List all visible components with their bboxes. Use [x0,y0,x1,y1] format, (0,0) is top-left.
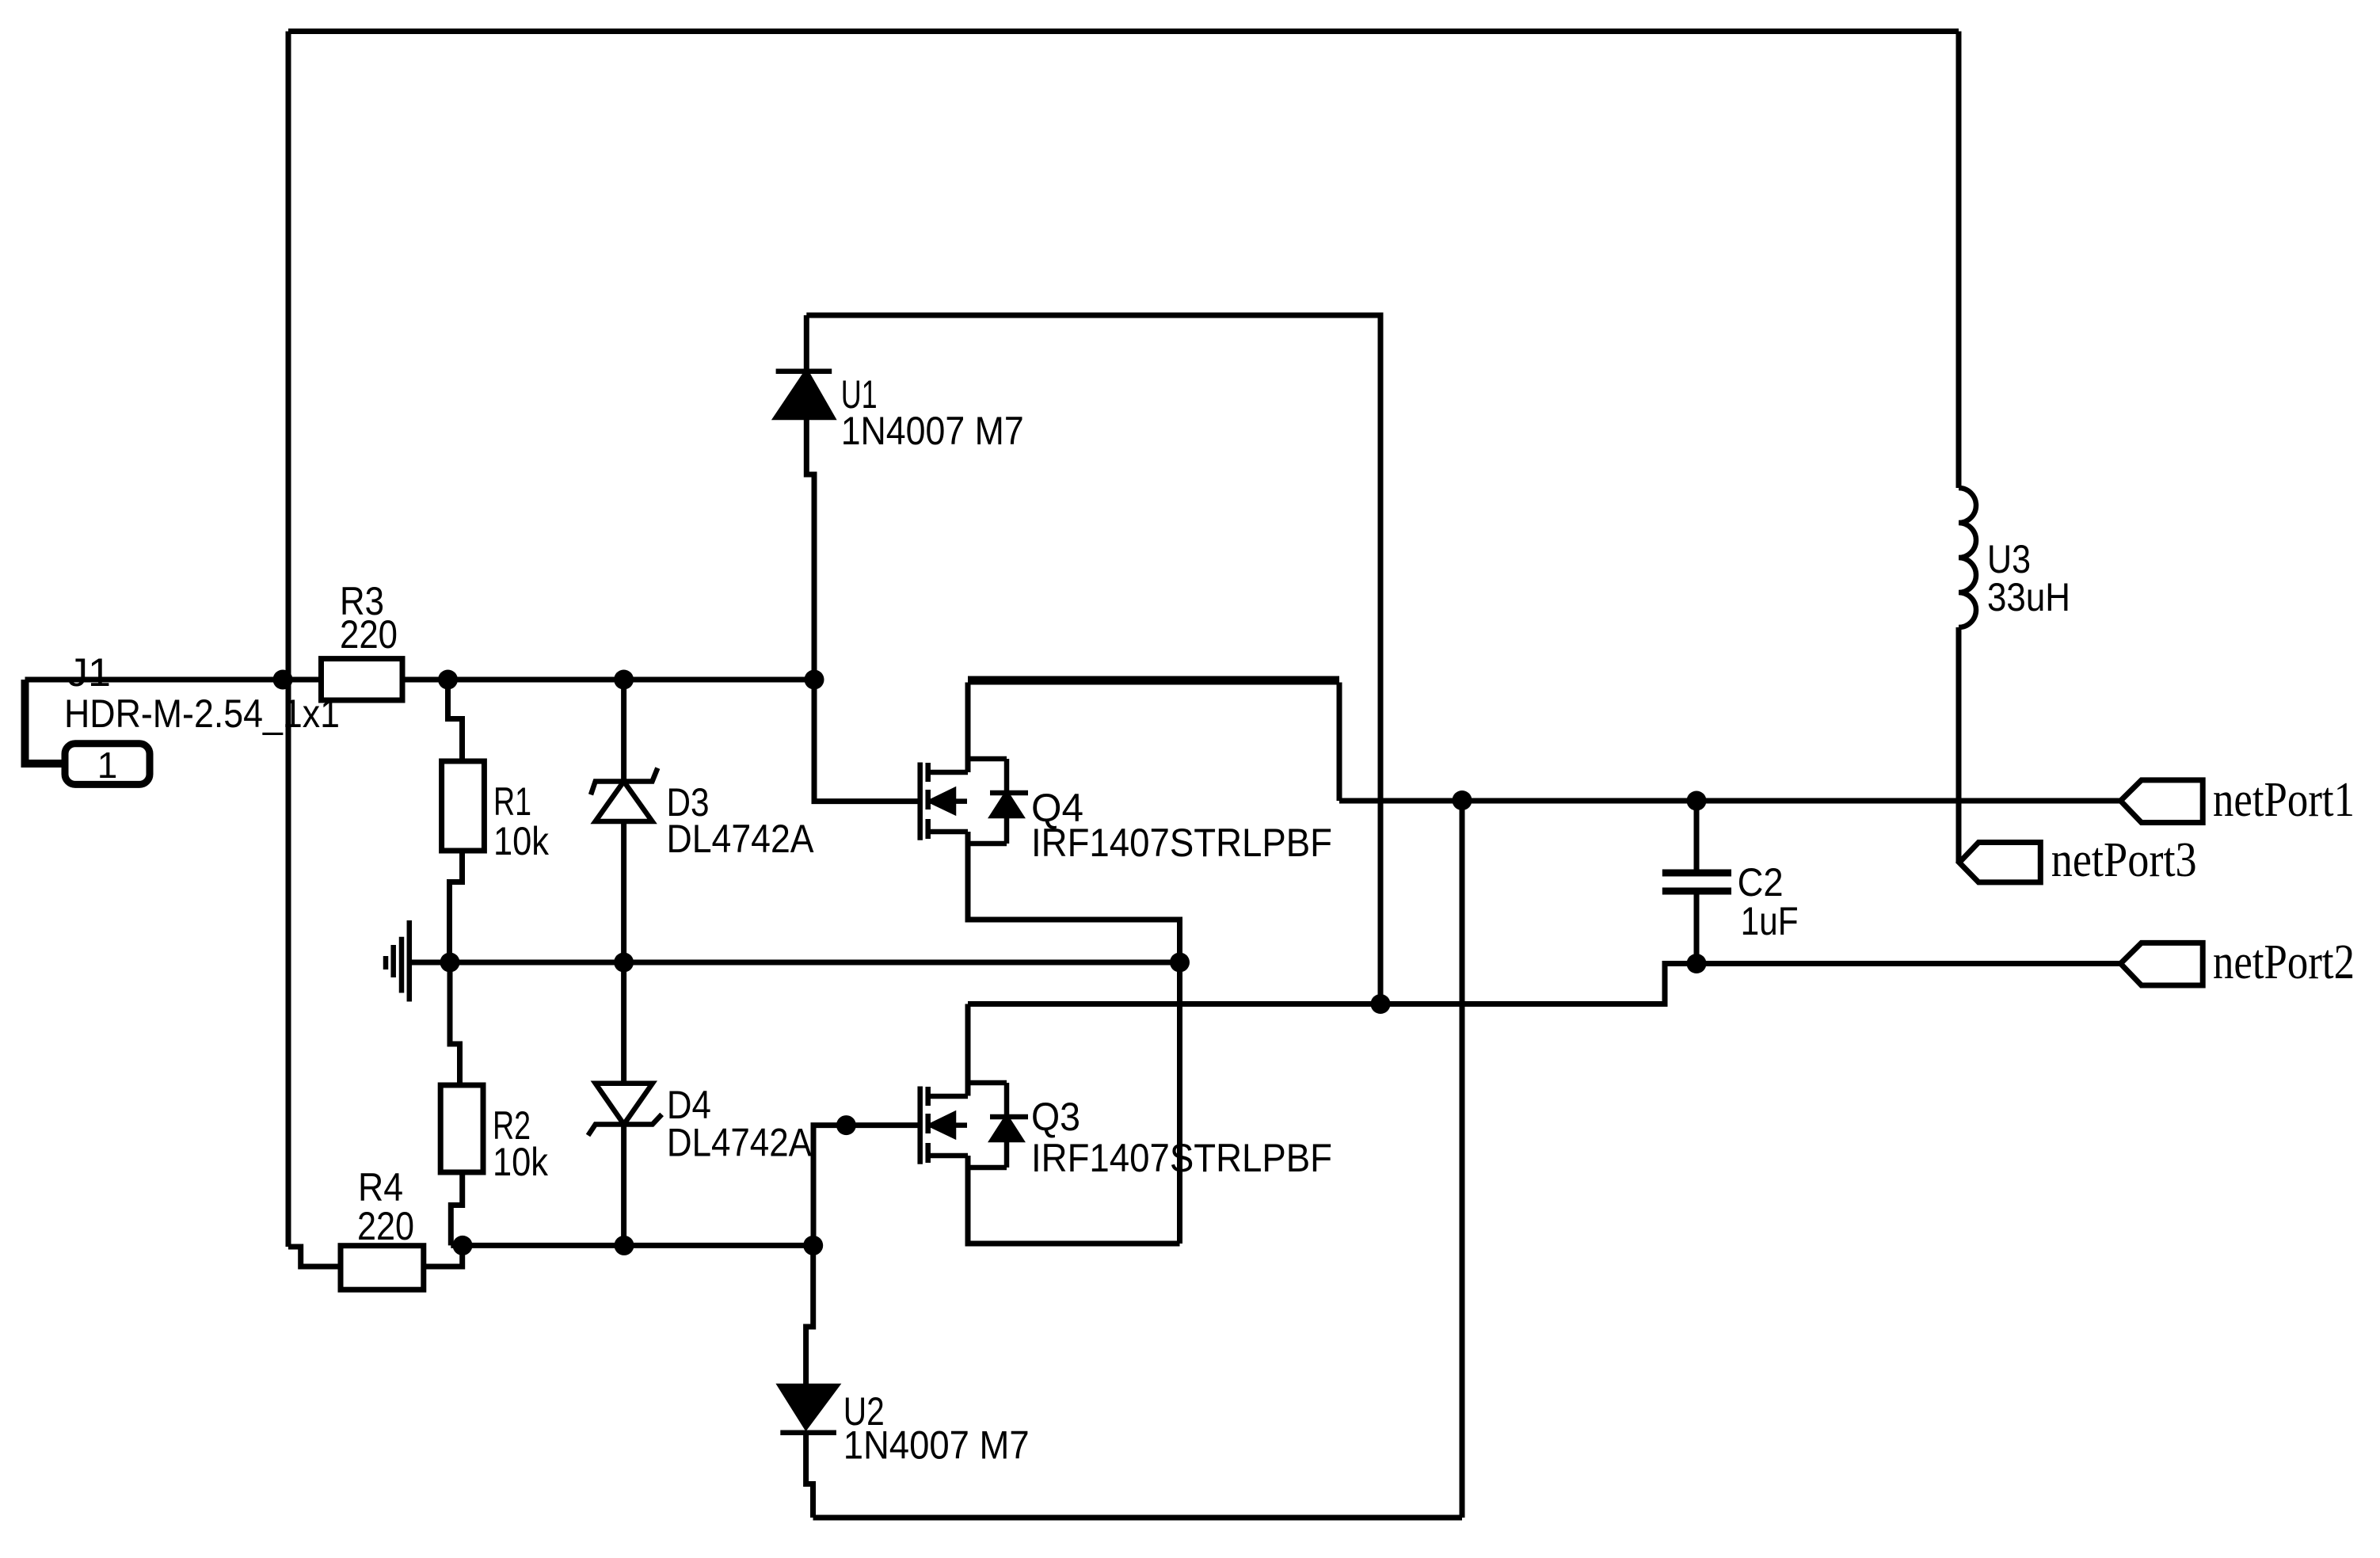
wire Q4 source to Q3 drain vertical [1177,962,1182,1244]
wire Q3 source path [968,1156,1180,1244]
svg-text:R4: R4 [358,1165,403,1209]
diode U2 [780,1386,836,1433]
node riser netPort1 junction [1453,790,1472,810]
diode D4 zener [588,1084,662,1136]
connector J1 outline [25,680,66,764]
node D3 bottom junction [614,953,634,973]
wire D3 to ground node [621,821,626,962]
port netPort1 [2120,780,2203,823]
resistor R3 [322,659,403,700]
wire Q4 box top [968,676,1339,685]
wire top border [288,29,1959,34]
svg-text:R1: R1 [493,779,531,824]
wire D3 top lead [621,680,626,782]
node U1 loop netPort2 junction [1371,994,1391,1014]
svg-text:DL4742A: DL4742A [667,1121,813,1165]
wire Q4 gate lead [814,680,920,802]
wire R1 bottom lead [450,851,463,962]
wire D4 bottom lead [621,1125,626,1246]
resistor R1 [442,761,485,851]
diode U1 [776,371,832,417]
svg-text:Q3: Q3 [1031,1095,1080,1139]
resistor R4 [341,1246,424,1290]
port netPort3 [1959,843,2041,882]
node U1 bottom junction [805,670,824,690]
wire U1 bottom lead [806,417,814,680]
wire bottom horizontal [813,1515,1463,1521]
wire R1 top lead [448,680,463,761]
resistor R2 [440,1085,483,1172]
svg-text:10k: 10k [493,1140,549,1184]
transistor Q3 [920,1083,1028,1168]
wire U2 top lead [806,1245,813,1386]
svg-text:DL4742A: DL4742A [667,817,815,861]
svg-text:netPort1: netPort1 [2213,773,2355,827]
wire Q3 drain vertical [965,1004,971,1096]
node A junction [273,670,293,690]
wire U1 top loop [806,315,1380,1004]
wire netPort1 line [1339,798,2120,804]
svg-text:33uH: 33uH [1987,575,2070,619]
wire U1 top corner [804,315,809,371]
wire R4 right lead [424,1245,463,1267]
node R1 top junction [438,670,458,690]
wire ground line y=1215 [409,960,1180,966]
wire main horizontal y=858 [283,677,814,683]
svg-text:1N4007 M7: 1N4007 M7 [841,409,1024,453]
wire right riser to netPort1 line [1460,801,1465,1518]
wire lower horizontal y=1572.4 [451,1243,813,1248]
wire Q4 drain vertical [965,683,971,773]
svg-text:IRF1407STRLPBF: IRF1407STRLPBF [1031,821,1332,865]
wire right border vertical [1956,32,1962,489]
capacitor C2 [1694,801,1700,873]
wire Q4 source path [968,832,1180,962]
svg-text:10k: 10k [493,819,550,863]
transistor Q4 [920,759,1028,844]
port netPort2 [2120,943,2203,985]
svg-text:1: 1 [97,745,118,786]
node C2 bottom junction [1687,954,1707,973]
wire U2 bottom lead [806,1433,813,1518]
svg-text:HDR-M-2.54_1x1: HDR-M-2.54_1x1 [64,691,340,736]
wire D4 top lead [621,962,626,1084]
node Q3 gate junction [836,1115,856,1135]
svg-text:IRF1407STRLPBF: IRF1407STRLPBF [1031,1136,1332,1180]
connector J1 pin 1 box [65,744,150,785]
node U2 top junction [803,1236,823,1255]
svg-text:netPort3: netPort3 [2051,833,2197,887]
wire netPort2 line [968,964,2120,1004]
svg-text:C2: C2 [1738,860,1784,905]
svg-text:1uF: 1uF [1741,899,1799,943]
wire J1 to node A [25,677,284,683]
ground [386,920,409,1002]
wire U3 bottom to netPort3 [1956,627,1962,863]
wire Q3 gate lead [813,1126,920,1246]
node Q4 source ground junction [1170,953,1190,973]
inductor U3 [1959,488,1976,627]
wire R2 bottom lead [451,1172,462,1245]
wire left border vertical [286,32,291,1248]
diode D3 zener [591,768,657,821]
svg-text:220: 220 [357,1204,414,1248]
wire Q4 box right [1337,683,1342,802]
node ground R junction [440,953,460,973]
node C2 top junction [1687,791,1707,811]
wire R2 top lead [450,962,460,1085]
svg-text:1N4007 M7: 1N4007 M7 [843,1423,1030,1468]
node R2 R4 junction [453,1236,473,1255]
node D3 top junction [614,670,634,690]
node D4 bottom junction [615,1236,634,1255]
svg-text:netPort2: netPort2 [2213,935,2355,989]
wire left bottom jog to R4 [288,1247,341,1267]
svg-text:J1: J1 [67,650,111,695]
svg-text:220: 220 [340,612,398,657]
